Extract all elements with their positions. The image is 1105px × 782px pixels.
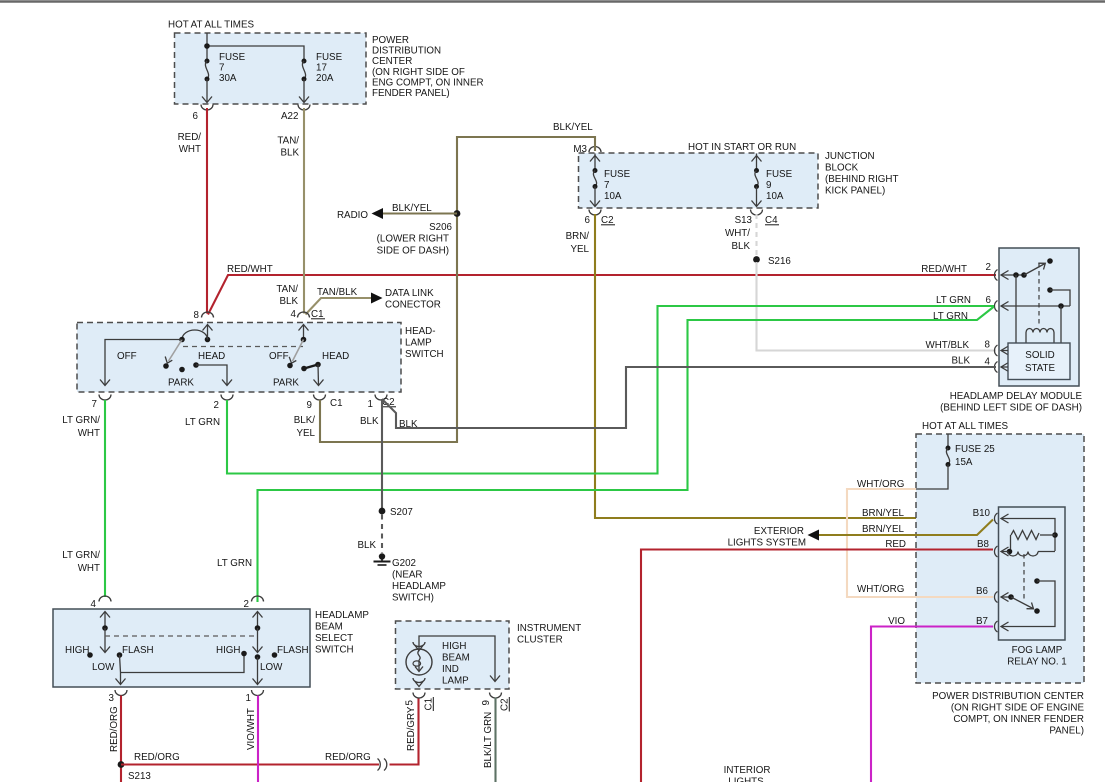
svg-text:20A: 20A: [316, 73, 334, 84]
svg-text:9: 9: [481, 700, 492, 705]
splice S216: [753, 256, 791, 267]
wire BLK/LT GRN from cluster pin 9 down: [494, 698, 496, 782]
svg-text:YEL: YEL: [570, 244, 589, 255]
wire FLASH contact down to pin 3: [120, 655, 121, 684]
internal relay coil: [1026, 329, 1054, 333]
svg-text:10A: 10A: [766, 191, 784, 202]
power distribution center box (top-left): [168, 20, 484, 123]
pin 3 connector (bottom): [115, 690, 127, 696]
pin M3 connector (top): [589, 147, 601, 153]
svg-text:FUSE: FUSE: [766, 169, 793, 180]
svg-text:HIGH: HIGH: [216, 645, 241, 656]
svg-text:WHT: WHT: [78, 563, 100, 574]
wire LT GRN from headlamp switch pin 2 to delay module pin 6: [227, 306, 994, 474]
svg-text:RED/ORG: RED/ORG: [134, 752, 180, 763]
pin 4 entry: [994, 362, 997, 373]
svg-text:S207: S207: [390, 507, 413, 518]
svg-text:SWITCH): SWITCH): [392, 593, 434, 604]
wiper arm pointing at OFF: [169, 340, 183, 362]
pin 9 connector C2 (bottom): [490, 693, 502, 699]
svg-text:HEADLAMP DELAY MODULE: HEADLAMP DELAY MODULE: [950, 391, 1083, 402]
svg-text:6: 6: [193, 111, 199, 122]
svg-text:8: 8: [194, 310, 200, 321]
pin 8 connector (top): [202, 312, 214, 317]
svg-text:BLK: BLK: [731, 241, 750, 252]
pin 1 connector C2 (bottom): [375, 395, 387, 401]
relay resistor: [1040, 534, 1055, 536]
headlamp beam select switch box: [53, 609, 310, 687]
svg-text:DATA LINK: DATA LINK: [385, 288, 434, 299]
wire BRN/YEL from junction fuse 7 down and right to fog relay B10: [566, 214, 993, 518]
top border line: [0, 0, 1105, 2]
svg-text:RED/ORG: RED/ORG: [109, 706, 120, 752]
wire RED/ORG from beam select pin 3 down to S213 and bottom: [109, 696, 121, 782]
wire bus inside PDC: [206, 33, 208, 61]
svg-text:RED/: RED/: [178, 132, 202, 143]
svg-text:(LOWER RIGHT: (LOWER RIGHT: [377, 234, 449, 245]
wire WHT/BLK dashed from C4 to splice S216: [725, 214, 757, 256]
pin B7 entry: [994, 621, 997, 632]
splice S213: [118, 761, 152, 782]
B8 wire into coil: [1001, 551, 1008, 553]
node bus junction: [204, 43, 210, 49]
svg-text:PANEL): PANEL): [1049, 726, 1084, 737]
svg-text:10A: 10A: [604, 191, 622, 202]
headlamp delay module box: [999, 248, 1079, 386]
OFF contact: [163, 363, 169, 369]
svg-text:RED: RED: [885, 539, 906, 550]
wire RED/WHT branch diagonal to long horizontal run to delay module pin 2: [208, 264, 996, 315]
relay internal: B10 feed to coil/resistor: [1001, 519, 1055, 552]
svg-text:FUSE: FUSE: [316, 52, 343, 63]
svg-text:PARK: PARK: [168, 378, 194, 389]
high beam ind lamp bulb: [406, 649, 432, 675]
internal wire pin2 to solid state: [1015, 275, 1017, 343]
arrow to EXTERIOR LIGHTS SYSTEM: [808, 530, 820, 541]
svg-text:7: 7: [604, 180, 609, 191]
wire BLK/YEL branch to RADIO: [337, 203, 457, 221]
splice S206: [377, 210, 461, 256]
svg-text:HEAD: HEAD: [322, 351, 349, 362]
svg-text:LOW: LOW: [92, 662, 115, 673]
wire RED/WHT from fuse 7 to headlamp switch pin 8: [178, 108, 207, 314]
pin 2 entry: [994, 270, 997, 281]
splice S207: [379, 508, 386, 515]
svg-text:17: 17: [316, 63, 327, 74]
svg-text:9: 9: [766, 180, 771, 191]
pin 4 connector (top): [99, 596, 111, 602]
svg-text:HEAD: HEAD: [198, 351, 225, 362]
svg-text:FUSE: FUSE: [219, 52, 246, 63]
svg-text:(NEAR: (NEAR: [392, 570, 422, 581]
pin 2 connector (bottom): [221, 395, 233, 401]
arrow to DATA LINK CONECTOR: [371, 293, 383, 304]
svg-text:OFF: OFF: [117, 351, 137, 362]
svg-text:15A: 15A: [955, 457, 973, 468]
svg-text:VIO/WHT: VIO/WHT: [246, 708, 257, 750]
svg-text:LT GRN/: LT GRN/: [62, 415, 100, 426]
svg-text:POWER DISTRIBUTION CENTER: POWER DISTRIBUTION CENTER: [932, 691, 1084, 702]
svg-text:RED/GRY: RED/GRY: [406, 706, 417, 751]
relay coil: [1007, 549, 1013, 555]
svg-text:LIGHTS: LIGHTS: [728, 777, 764, 782]
link PARK to HEAD: [304, 365, 318, 369]
svg-text:TAN/BLK: TAN/BLK: [317, 287, 358, 298]
svg-text:S213: S213: [128, 771, 151, 782]
pin 8 entry: [994, 345, 997, 356]
right section feed arrow from pin 2: [257, 612, 259, 628]
svg-text:(BEHIND LEFT SIDE OF DASH): (BEHIND LEFT SIDE OF DASH): [940, 403, 1082, 414]
headlamp switch box: [77, 323, 401, 393]
fuse F9 10A (junction block): [756, 154, 758, 171]
svg-text:BLK/LT GRN: BLK/LT GRN: [483, 712, 494, 768]
FLASH contact (right): [272, 652, 278, 658]
wire RED/GRY from connector up to cluster pin 5: [390, 698, 419, 765]
svg-text:BLK: BLK: [951, 356, 970, 367]
svg-text:FUSE 25: FUSE 25: [955, 444, 995, 455]
svg-text:LT GRN/: LT GRN/: [62, 550, 100, 561]
ground G202: [379, 553, 385, 559]
svg-text:LIGHTS SYSTEM: LIGHTS SYSTEM: [728, 538, 806, 549]
svg-text:BLK: BLK: [399, 419, 418, 430]
internal: pin6 wire, contact, jog: [1001, 305, 1070, 307]
wire RED from interior lights down-left to relay B8: [641, 550, 993, 782]
svg-text:RELAY NO. 1: RELAY NO. 1: [1007, 657, 1067, 668]
internal wire top run: [419, 636, 495, 681]
svg-text:BRN/YEL: BRN/YEL: [862, 508, 904, 519]
left section feed arrow from pin 4: [104, 612, 106, 628]
svg-text:WHT/: WHT/: [725, 228, 750, 239]
svg-text:YEL: YEL: [296, 428, 315, 439]
svg-text:SIDE OF DASH): SIDE OF DASH): [377, 246, 449, 257]
svg-text:FLASH: FLASH: [277, 645, 309, 656]
svg-text:BLK: BLK: [280, 148, 299, 159]
svg-text:M3: M3: [573, 144, 587, 155]
svg-text:B8: B8: [977, 539, 990, 550]
svg-text:2: 2: [986, 262, 991, 273]
PARK contact (right): [301, 366, 307, 372]
module internal: pin2 wire and switch: [1001, 274, 1024, 276]
svg-text:EXTERIOR: EXTERIOR: [754, 526, 804, 537]
svg-text:S13: S13: [735, 215, 753, 226]
svg-text:HOT AT ALL TIMES: HOT AT ALL TIMES: [168, 20, 254, 31]
svg-text:LT GRN: LT GRN: [185, 417, 220, 428]
svg-text:BRN/YEL: BRN/YEL: [862, 524, 904, 535]
instrument cluster box: [396, 621, 510, 689]
OFF contact (right): [287, 363, 293, 369]
HIGH contact (right): [241, 651, 247, 657]
svg-text:B7: B7: [976, 616, 988, 627]
solid state block: [1008, 343, 1070, 380]
right wiper arm pointing at LOW contact: [257, 628, 259, 652]
svg-text:A22: A22: [281, 111, 298, 122]
wire BLK from headlamp switch pin 1 to delay module pin 4: [382, 367, 996, 428]
wire RED/ORG horizontal to inline connector: [121, 752, 379, 765]
HIGH contact (left): [87, 652, 93, 658]
svg-text:S216: S216: [768, 256, 791, 267]
wire LT GRN/WHT from headlamp switch pin 7 to beam select pin 4: [104, 400, 106, 597]
internal dashed actuator line: [1038, 263, 1040, 326]
svg-text:C1: C1: [330, 398, 343, 409]
relay switch: B6 arm: [1001, 596, 1011, 598]
wire VIO/WHT from beam select pin 1 down: [246, 696, 258, 782]
svg-text:STATE: STATE: [1025, 363, 1056, 374]
wire FLASH(left) to HIGH(right): [121, 655, 245, 673]
svg-text:HIGH: HIGH: [65, 645, 90, 656]
FLASH contact (left): [117, 652, 123, 658]
svg-text:4: 4: [985, 357, 991, 368]
svg-text:B10: B10: [973, 508, 991, 519]
wire WHT/BLK from S216 to delay module pin 8: [757, 262, 997, 351]
svg-text:FOG LAMP: FOG LAMP: [1012, 645, 1063, 656]
right switch section: feed arrow from pin 4: [303, 325, 305, 340]
pin 4 connector C1 (top): [298, 312, 310, 317]
svg-text:RED/ORG: RED/ORG: [325, 752, 371, 763]
mechanical link dashed: [183, 346, 303, 348]
pin B6 entry: [994, 592, 997, 603]
svg-text:COMPT, ON INNER FENDER: COMPT, ON INNER FENDER: [953, 714, 1084, 725]
wire TAN/BLK branch to data link connector: [306, 287, 441, 315]
wire from pivot to pin 7: [105, 340, 182, 386]
pin B10 entry: [994, 513, 997, 524]
svg-text:SWITCH: SWITCH: [405, 349, 444, 360]
svg-text:2: 2: [214, 400, 219, 411]
svg-text:HEAD-: HEAD-: [405, 326, 435, 337]
pin 9 connector C1 (bottom): [314, 395, 326, 401]
wire BRN/YEL from exterior lights arrow to relay B10: [819, 520, 993, 536]
svg-text:BLK/: BLK/: [294, 415, 316, 426]
internal switch arm with arrowhead: [1024, 264, 1045, 276]
svg-text:RADIO: RADIO: [337, 210, 368, 221]
svg-text:WHT: WHT: [78, 428, 100, 439]
fog lamp relay no. 1 box: [999, 507, 1066, 640]
fuse F17 20A: [302, 59, 307, 64]
svg-text:PARK: PARK: [273, 378, 299, 389]
svg-text:INTERIOR: INTERIOR: [724, 765, 771, 776]
svg-text:9: 9: [307, 400, 312, 411]
svg-text:HOT AT ALL TIMES: HOT AT ALL TIMES: [922, 421, 1008, 432]
wire LT GRN from beam select pin 2 to delay module pin 6 (lower): [258, 307, 995, 603]
svg-text:4: 4: [91, 599, 97, 610]
HEAD contact (right): [315, 362, 321, 368]
svg-text:3: 3: [109, 693, 115, 704]
pin 7 connector (bottom): [99, 395, 111, 401]
wire HEAD contact to pin 2: [196, 365, 227, 385]
svg-text:HEADLAMP: HEADLAMP: [392, 581, 446, 592]
inline connector symbol: [378, 759, 387, 771]
svg-text:WHT/ORG: WHT/ORG: [857, 479, 904, 490]
svg-text:CLUSTER: CLUSTER: [517, 635, 563, 646]
arc rotary link pin8: [182, 330, 208, 339]
svg-text:30A: 30A: [219, 73, 237, 84]
svg-text:7: 7: [219, 63, 224, 74]
svg-text:FUSE: FUSE: [604, 169, 631, 180]
svg-text:G202: G202: [392, 558, 416, 569]
junction block box: [579, 153, 819, 208]
svg-text:BLK: BLK: [357, 540, 376, 551]
fuse F7 10A (junction block): [594, 154, 596, 171]
svg-text:RED/WHT: RED/WHT: [921, 264, 967, 275]
svg-text:5: 5: [405, 700, 416, 706]
fuse F7 30A: [205, 59, 210, 64]
pin 1 connector (bottom): [252, 690, 264, 696]
svg-text:LOW: LOW: [260, 662, 283, 673]
HEAD contact: [193, 362, 199, 368]
svg-text:HOT IN START OR RUN: HOT IN START OR RUN: [688, 142, 796, 153]
wire BLK from pin 1 down to splice S207: [381, 399, 383, 508]
svg-text:LT GRN: LT GRN: [936, 295, 971, 306]
svg-text:6: 6: [585, 215, 591, 226]
wire VIO to relay B7: [871, 627, 993, 782]
svg-text:BLK: BLK: [360, 416, 379, 427]
wire BLK/YEL net: M3 up over to S206 and down to headlamp switch pin 9: [294, 122, 595, 442]
svg-text:LT GRN: LT GRN: [217, 558, 252, 569]
relay dashed actuator: [1023, 554, 1025, 601]
svg-text:SOLID: SOLID: [1025, 350, 1054, 361]
pin 6 / C2 connector (bottom): [589, 210, 601, 216]
svg-text:BLK/YEL: BLK/YEL: [392, 203, 432, 214]
internal wires pins 8 and 4 to solid state: [1001, 350, 1008, 352]
pin B8 entry: [994, 546, 997, 557]
svg-text:6: 6: [986, 295, 992, 306]
svg-text:TAN/: TAN/: [277, 136, 299, 147]
PARK contact: [179, 367, 185, 373]
wire TAN/BLK from fuse 17 to headlamp switch pin 4: [276, 108, 304, 314]
LOW contact (right): [255, 654, 261, 660]
svg-text:BLK/YEL: BLK/YEL: [553, 122, 593, 133]
svg-text:7: 7: [92, 399, 97, 410]
svg-text:CONECTOR: CONECTOR: [385, 300, 441, 311]
svg-text:RED/WHT: RED/WHT: [227, 264, 273, 275]
svg-text:2: 2: [244, 599, 249, 610]
svg-text:4: 4: [291, 309, 297, 320]
mechanical link dashed: [105, 635, 258, 637]
left wiper arm pointing at LOW: [104, 628, 106, 652]
svg-text:1: 1: [368, 399, 373, 410]
svg-text:BRN/: BRN/: [566, 231, 590, 242]
relay NO contact to B7: [1034, 578, 1040, 584]
svg-text:WHT: WHT: [179, 144, 201, 155]
svg-text:WHT/ORG: WHT/ORG: [857, 584, 904, 595]
wire LOW contact down to pin 1: [257, 657, 259, 684]
left switch section: feed arrow from pin 8: [207, 325, 209, 340]
svg-text:TAN/: TAN/: [276, 284, 298, 295]
svg-text:8: 8: [985, 340, 991, 351]
svg-text:INSTRUMENT: INSTRUMENT: [517, 623, 581, 634]
pin 6 connector: [201, 105, 213, 111]
svg-text:VIO: VIO: [888, 616, 905, 627]
svg-text:BLK: BLK: [279, 296, 298, 307]
svg-text:B6: B6: [976, 586, 989, 597]
svg-text:1: 1: [246, 693, 251, 704]
svg-text:(ON RIGHT SIDE OF ENGINE: (ON RIGHT SIDE OF ENGINE: [951, 703, 1085, 714]
pin 5 connector C1 (bottom): [413, 693, 425, 699]
svg-text:S206: S206: [429, 222, 452, 233]
pin 2 connector (top): [252, 596, 264, 602]
pin A22 connector: [298, 105, 310, 111]
wire BLK dashed to ground: [381, 515, 383, 554]
fuse F25 15A: [947, 434, 949, 448]
svg-text:OFF: OFF: [269, 351, 289, 362]
power distribution center box (bottom-right): [916, 434, 1084, 683]
svg-text:FLASH: FLASH: [122, 645, 154, 656]
pin S13 / C4 connector (bottom): [751, 210, 763, 216]
svg-text:WHT/BLK: WHT/BLK: [925, 340, 969, 351]
svg-text:LAMP: LAMP: [405, 338, 432, 349]
wiper arm pointing at OFF (right section): [293, 340, 304, 362]
pin 6 entry: [994, 301, 997, 312]
wire from fuse to box edge (black inside): [916, 465, 948, 490]
wire WHT/ORG from box edge to relay B6: [847, 489, 993, 597]
wire HEAD contact to pin 9: [317, 365, 320, 386]
